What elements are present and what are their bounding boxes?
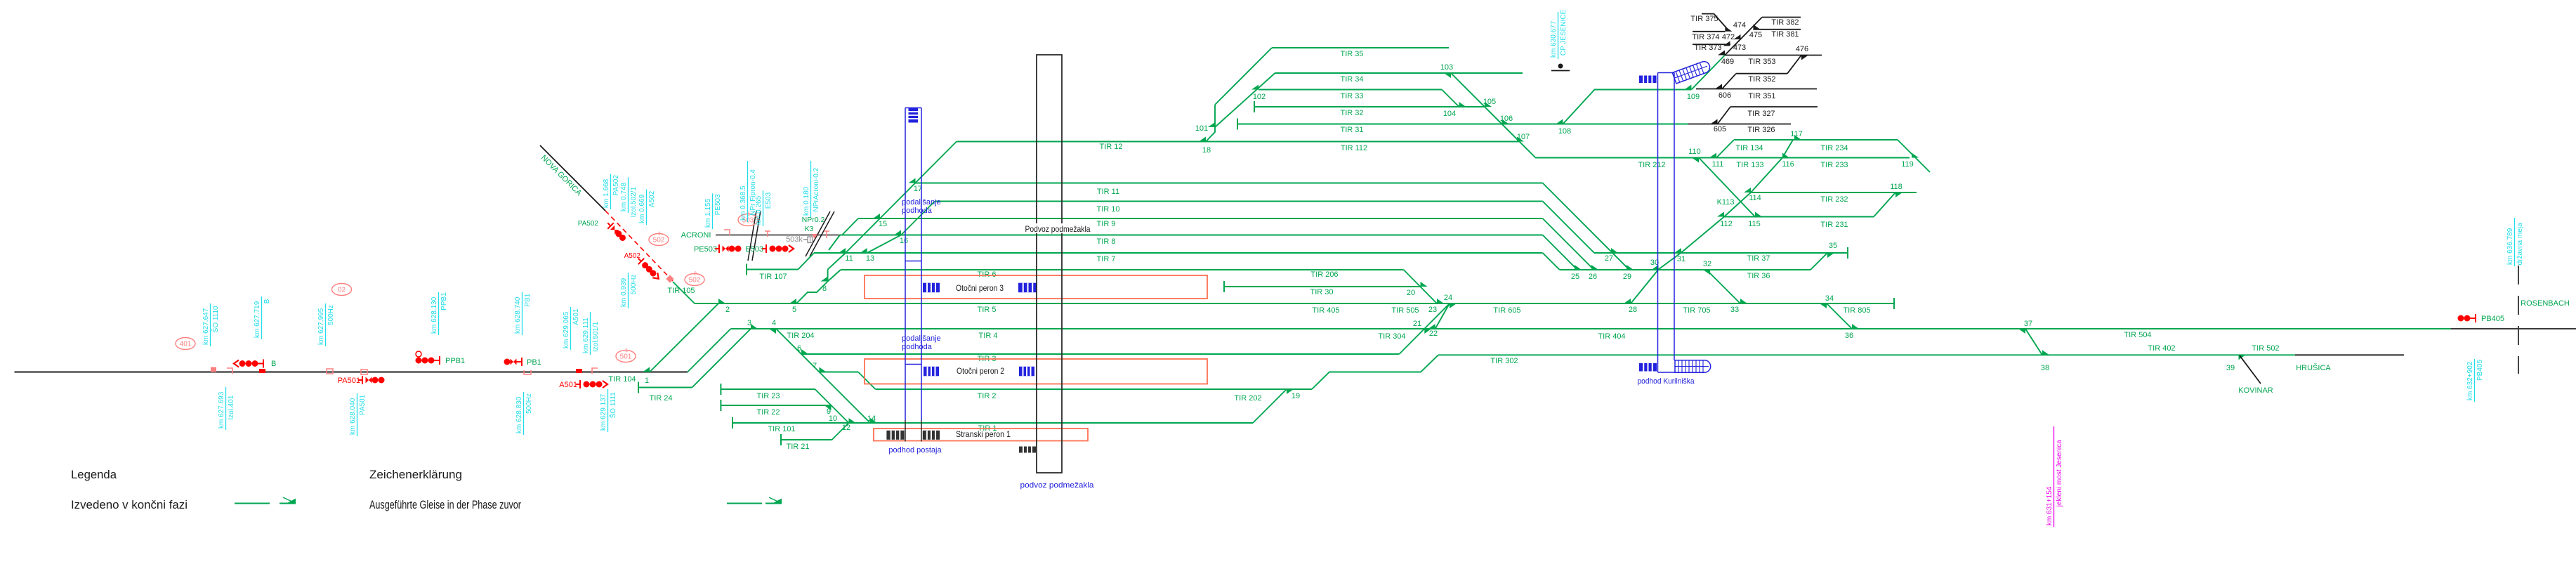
svg-text:474: 474 xyxy=(1733,21,1746,30)
state border vertical line xyxy=(2518,266,2519,374)
svg-text:A501: A501 xyxy=(559,381,577,389)
svg-text:km 630.677: km 630.677 xyxy=(1550,20,1558,58)
svg-text:podaljšanje: podaljšanje xyxy=(902,198,941,207)
svg-text:TIR 36: TIR 36 xyxy=(1747,272,1770,280)
platform box Stranski peron 1 xyxy=(874,429,1088,441)
wire diagonal node32 to node33 xyxy=(1707,270,1740,303)
svg-text:TIR 505: TIR 505 xyxy=(1391,306,1419,315)
svg-text:NPr0.2: NPr0.2 xyxy=(802,216,825,224)
wire TIR 8 row xyxy=(840,235,1543,236)
svg-text:TIR 206: TIR 206 xyxy=(1310,270,1338,279)
svg-text:502: 502 xyxy=(689,277,701,285)
svg-text:TIR 375: TIR 375 xyxy=(1690,15,1718,23)
switch node 14 xyxy=(870,418,877,423)
stairs icon blue peron2 right xyxy=(1019,367,1034,377)
svg-text:475: 475 xyxy=(1749,31,1762,39)
svg-text:km 628.740: km 628.740 xyxy=(514,296,522,334)
wire TIR107 diagonal to TIR7 row xyxy=(799,253,815,270)
signal PPB1 xyxy=(416,351,421,357)
signal PB1 xyxy=(504,359,511,365)
switch node 25 xyxy=(1575,265,1582,270)
svg-text:Stranski peron 1: Stranski peron 1 xyxy=(956,429,1011,439)
svg-text:km 629.065: km 629.065 xyxy=(563,311,570,348)
svg-text:PA501: PA501 xyxy=(359,394,367,415)
switch node 22 xyxy=(1428,324,1435,329)
svg-text:33: 33 xyxy=(1730,306,1739,314)
svg-text:TIR 502: TIR 502 xyxy=(2252,344,2279,353)
svg-text:1: 1 xyxy=(658,232,661,237)
wire TIR36 end diagonal to node35 xyxy=(1811,253,1827,270)
svg-text:29: 29 xyxy=(1623,273,1631,281)
svg-text:7: 7 xyxy=(813,362,817,370)
svg-text:PPB1: PPB1 xyxy=(440,292,448,311)
underpass station hatched stairs head xyxy=(909,108,919,123)
svg-text:34: 34 xyxy=(1825,294,1834,303)
svg-text:km 627.719: km 627.719 xyxy=(254,301,261,338)
switch node 110 xyxy=(1692,158,1699,163)
wire TIR 33 row xyxy=(1259,89,1442,91)
switch node 12 xyxy=(849,418,856,423)
switch node 474 xyxy=(1734,34,1741,39)
switch node 472 xyxy=(1725,27,1732,32)
svg-text:TIR 504: TIR 504 xyxy=(2124,331,2151,339)
svg-text:108: 108 xyxy=(1558,127,1571,136)
wire green diagonal 109 to 469 xyxy=(1691,55,1725,90)
wire feed to TIR8 start xyxy=(829,235,840,251)
svg-text:112: 112 xyxy=(1720,220,1733,228)
svg-text:Podvoz podmežakla: Podvoz podmežakla xyxy=(1025,224,1091,234)
svg-text:19: 19 xyxy=(1292,392,1300,400)
svg-text:ACRONI: ACRONI xyxy=(681,231,711,240)
svg-text:TIR 35: TIR 35 xyxy=(1340,50,1363,58)
svg-text:Izol.501/1: Izol.501/1 xyxy=(592,321,600,352)
svg-text:podhod postaja: podhod postaja xyxy=(888,446,942,455)
svg-text:15: 15 xyxy=(879,220,887,228)
svg-text:PPB1: PPB1 xyxy=(445,357,465,365)
switch node 3 xyxy=(751,324,758,329)
svg-text:26: 26 xyxy=(1589,273,1597,281)
underpass Kurilniska bottom connector xyxy=(1658,372,1676,373)
switch node 118 xyxy=(1895,192,1903,197)
svg-text:TIR 202: TIR 202 xyxy=(1234,394,1261,403)
overpass Podvoz podmezakla box xyxy=(1037,55,1062,473)
svg-text:PB405: PB405 xyxy=(2481,315,2504,323)
svg-text:km 628.830: km 628.830 xyxy=(515,396,523,433)
wire TIR 134/234 row xyxy=(1734,139,1898,140)
svg-text:TIR 5: TIR 5 xyxy=(978,306,997,314)
wire TIR 302/402 row xyxy=(1438,354,2295,355)
svg-text:km 627.693: km 627.693 xyxy=(218,391,225,429)
red circled number 02 xyxy=(332,284,352,296)
switch node 103 xyxy=(1444,73,1451,78)
svg-text:km 628.130: km 628.130 xyxy=(431,296,438,334)
wire TIR9 end diagonal to node26 xyxy=(1543,218,1594,270)
svg-text:119: 119 xyxy=(1901,160,1914,169)
switch node 116 xyxy=(1782,153,1789,158)
svg-text:km 0.748: km 0.748 xyxy=(620,182,628,211)
svg-text:24: 24 xyxy=(1444,294,1452,302)
svg-text:TIR 605: TIR 605 xyxy=(1493,306,1520,315)
switch node 4 xyxy=(769,329,776,334)
svg-text:21: 21 xyxy=(1413,320,1421,328)
svg-text:1: 1 xyxy=(625,348,628,353)
wire TIR 4 row (TIR204/304/404/504) xyxy=(731,328,2451,329)
platform box Otocni peron 2 xyxy=(865,359,1207,384)
wire TIR2 step up to TIR302 xyxy=(1312,355,1438,389)
svg-text:Legenda: Legenda xyxy=(71,468,117,481)
svg-text:TIR 107: TIR 107 xyxy=(759,273,787,281)
switch node 111 xyxy=(1709,153,1716,158)
svg-text:TIR 12: TIR 12 xyxy=(1099,143,1122,151)
svg-text:2: 2 xyxy=(694,272,697,277)
wire TIR11 end diagonal through 27 to node29 xyxy=(1543,183,1629,270)
wire long diagonal node11-15-17-TIR12 xyxy=(846,142,957,254)
switch node 105 xyxy=(1485,102,1492,107)
svg-text:B: B xyxy=(263,299,271,303)
switch node 23 xyxy=(1437,299,1444,303)
svg-text:115: 115 xyxy=(1748,220,1761,228)
wire red dashed diagonal continuation xyxy=(605,211,673,281)
wire TIR 32 row xyxy=(1254,101,1255,112)
svg-text:Otočni peron 3: Otočni peron 3 xyxy=(956,283,1004,293)
wire diagonal TIR24 to node3 xyxy=(692,329,751,388)
red circled number 401 xyxy=(176,338,195,350)
svg-text:38: 38 xyxy=(2041,364,2049,372)
svg-text:km 627.647: km 627.647 xyxy=(202,308,210,345)
wire TIR 374 row xyxy=(1693,31,1725,32)
stairs box bottom left xyxy=(1639,363,1657,372)
switch node 119 xyxy=(1912,153,1919,158)
svg-text:TIR 101: TIR 101 xyxy=(768,425,795,433)
svg-text:500Hz: 500Hz xyxy=(525,393,533,414)
red end square on diagonal xyxy=(666,275,673,282)
wire black diagonal 469 up xyxy=(1725,18,1762,55)
wire grand diagonal node28 to 117 xyxy=(1631,140,1793,303)
svg-text:6: 6 xyxy=(797,344,801,353)
wire TIR8 row to TIR9 start diagonal xyxy=(842,218,858,235)
svg-text:TIR 232: TIR 232 xyxy=(1820,195,1848,204)
svg-text:502: 502 xyxy=(653,237,665,244)
svg-text:TIR 204: TIR 204 xyxy=(787,332,814,340)
underpass station top connector xyxy=(905,107,921,109)
legend sample line 2 xyxy=(727,503,762,504)
wire diagonal node22 to node24 xyxy=(1435,303,1450,329)
wire KOVINAR diagonal (black) xyxy=(2240,355,2261,384)
wire TIR10 end diagonal to TIR37 row start xyxy=(1543,202,1594,254)
wire diagonal node108 up to 109 row xyxy=(1563,90,1691,124)
wire node8 top diagonal to node 11 xyxy=(828,253,846,270)
wire stub row at node7 xyxy=(820,372,859,373)
svg-text:116: 116 xyxy=(1782,160,1794,169)
switch node 117 xyxy=(1794,135,1801,140)
svg-text:km 0.265: km 0.265 xyxy=(755,195,763,225)
svg-text:TIR 2: TIR 2 xyxy=(978,392,997,400)
wire main line continuation to Rosenbach (dark) xyxy=(2451,328,2576,329)
svg-text:105: 105 xyxy=(1483,98,1496,106)
svg-text:TIR 373: TIR 373 xyxy=(1694,44,1721,52)
svg-text:km 627.995: km 627.995 xyxy=(317,308,325,345)
svg-text:PA502: PA502 xyxy=(578,220,599,228)
switch node 31 xyxy=(1674,248,1681,253)
wire TIR 30 track xyxy=(1223,281,1225,292)
wire TIR 373 row xyxy=(1693,44,1730,45)
svg-text:E503: E503 xyxy=(745,245,763,254)
svg-text:TIR 304: TIR 304 xyxy=(1378,332,1405,341)
boundary slash pair 1 xyxy=(748,211,756,261)
wire diagonal node111 to TIR134 row xyxy=(1716,140,1734,158)
wire NOVA GORICA line (black diagonal) xyxy=(540,145,605,211)
legend sample line 1 xyxy=(235,503,270,504)
svg-text:TIR 105: TIR 105 xyxy=(667,287,695,295)
svg-text:TIR 8: TIR 8 xyxy=(1097,237,1116,246)
svg-text:TIR 374: TIR 374 xyxy=(1692,33,1719,41)
svg-text:18: 18 xyxy=(1202,146,1211,155)
wire grand diagonal node103 to TIR212 xyxy=(1451,73,1536,158)
wire diagonal node101 to TIR 34 xyxy=(1215,73,1275,127)
svg-text:22: 22 xyxy=(1429,329,1438,338)
svg-text:km 631+154: km 631+154 xyxy=(2046,486,2053,525)
svg-text:TIR 353: TIR 353 xyxy=(1748,58,1775,66)
wire TIR 7 row xyxy=(814,252,1543,254)
wire TIR 21 track xyxy=(780,434,782,445)
svg-text:podhoda: podhoda xyxy=(902,343,933,351)
switch node 107 xyxy=(1517,137,1524,142)
switch node 39 xyxy=(2239,355,2246,360)
svg-text:2: 2 xyxy=(725,306,730,314)
stairs icon black stranski 1 xyxy=(886,431,904,440)
wire TIR 107 track xyxy=(746,264,747,275)
wire TIR33 end diagonal to node104 xyxy=(1442,90,1459,107)
svg-text:A502: A502 xyxy=(648,190,656,207)
svg-text:3: 3 xyxy=(747,319,751,327)
svg-text:podhoda: podhoda xyxy=(902,207,933,215)
svg-text:TIR 231: TIR 231 xyxy=(1820,221,1848,229)
svg-text:TIR 31: TIR 31 xyxy=(1340,126,1363,134)
switch node 115 xyxy=(1755,212,1762,217)
svg-text:5: 5 xyxy=(792,306,796,314)
svg-text:TIR 133: TIR 133 xyxy=(1736,161,1763,169)
svg-text:606: 606 xyxy=(1719,91,1731,100)
red bracket mark near A501 xyxy=(592,368,598,374)
svg-text:TIR 6: TIR 6 xyxy=(978,270,997,279)
svg-text:13: 13 xyxy=(866,254,874,263)
svg-text:PA501: PA501 xyxy=(338,377,360,385)
svg-text:ROSENBACH: ROSENBACH xyxy=(2521,299,2570,308)
underpass Kurilniska top connector xyxy=(1658,72,1675,74)
svg-text:ŠO 1110: ŠO 1110 xyxy=(211,306,220,332)
svg-text:TIR 7: TIR 7 xyxy=(1097,255,1116,263)
svg-text:podhod Kurilniška: podhod Kurilniška xyxy=(1638,377,1695,386)
switch node 15 xyxy=(873,214,880,218)
svg-text:TIR 21: TIR 21 xyxy=(786,443,809,451)
wire TIR 31 row xyxy=(1237,119,1238,130)
switch node 28 xyxy=(1624,299,1631,303)
svg-text:110: 110 xyxy=(1688,148,1701,156)
red circled number 503 xyxy=(738,214,758,226)
wire diagonal 605 to TIR327 xyxy=(1718,107,1731,124)
red marks on ACRONI line xyxy=(724,230,730,235)
svg-text:km 0.368.5: km 0.368.5 xyxy=(740,185,747,221)
red gap mark km628.830 xyxy=(524,370,531,374)
red circled number 501 xyxy=(616,351,636,362)
wire diagonal node16 to TIR10 xyxy=(901,202,935,235)
wire diagonal TIR1 to node19 xyxy=(1253,389,1287,423)
switch node 30 xyxy=(1652,265,1659,270)
wire TIR 351 row xyxy=(1696,89,1817,90)
switch node 37 xyxy=(2018,329,2025,334)
svg-text:KOVINAR: KOVINAR xyxy=(2238,386,2273,395)
wire diagonal node7 to TIR2 xyxy=(858,372,876,390)
wire TIR 105 lead-in diagonal xyxy=(673,282,695,303)
switch node 112 xyxy=(1717,212,1724,217)
wire TIR134 end diagonal through node119 xyxy=(1898,140,1930,172)
svg-text:državna meja: državna meja xyxy=(2516,223,2524,265)
survey dot symbol xyxy=(1558,64,1563,69)
wire diagonal node18 vertical link xyxy=(1206,105,1215,142)
switch node 1 xyxy=(643,367,650,372)
svg-text:4: 4 xyxy=(772,319,776,327)
svg-text:101: 101 xyxy=(1195,124,1208,133)
svg-text:TIR 22: TIR 22 xyxy=(756,408,780,417)
svg-text:TIR 11: TIR 11 xyxy=(1097,188,1119,196)
svg-text:TIR 104: TIR 104 xyxy=(608,375,636,384)
svg-text:TIR 351: TIR 351 xyxy=(1748,92,1775,100)
wire TIR 12 row xyxy=(957,141,1519,143)
wire diagonal TIR352 to node476 xyxy=(1787,55,1801,74)
stairs icon blue peron3 left xyxy=(923,283,940,293)
svg-text:E503: E503 xyxy=(765,192,773,209)
svg-text:podaljšanje: podaljšanje xyxy=(902,334,941,343)
underpass station connector xyxy=(905,261,921,262)
wire diagonal TIR21 to node12 xyxy=(832,423,849,440)
svg-text:ŠO 1111: ŠO 1111 xyxy=(608,392,617,419)
svg-text:PA502: PA502 xyxy=(612,175,620,196)
wire TIR 24 track xyxy=(638,382,639,393)
switch node 6 xyxy=(801,349,808,354)
switch node 9 xyxy=(824,405,832,410)
svg-text:TIR 33: TIR 33 xyxy=(1340,92,1363,100)
svg-text:39: 39 xyxy=(2226,364,2235,372)
switch node 32 xyxy=(1703,270,1710,275)
svg-text:km 632+902: km 632+902 xyxy=(2466,361,2474,400)
svg-text:TIR 234: TIR 234 xyxy=(1820,144,1848,152)
svg-text:TIR 24: TIR 24 xyxy=(649,394,672,403)
svg-text:TIR 9: TIR 9 xyxy=(1097,220,1116,228)
wire diagonal main to TIR4 row xyxy=(688,329,731,372)
svg-text:500Hz: 500Hz xyxy=(327,305,335,325)
wire diagonal node1 to node2 (to TIR5) xyxy=(650,303,718,372)
wire ACRONI industrial line xyxy=(716,235,842,236)
svg-text:473: 473 xyxy=(1733,44,1746,52)
wire diagonal node13 to node16 xyxy=(867,235,901,254)
svg-text:31: 31 xyxy=(1677,255,1685,263)
wire TIR 35 row xyxy=(1272,47,1449,48)
switch node 475 xyxy=(1753,25,1760,30)
svg-text:111: 111 xyxy=(1712,160,1724,169)
svg-text:11: 11 xyxy=(845,254,853,263)
svg-text:8: 8 xyxy=(822,285,827,293)
red open square mark xyxy=(327,369,333,374)
underpass station connector 2 xyxy=(905,364,921,365)
svg-text:km 0.180: km 0.180 xyxy=(803,186,810,216)
svg-text:PB405: PB405 xyxy=(2476,360,2484,381)
svg-text:K113: K113 xyxy=(1717,198,1735,207)
svg-text:Ausgeführte Gleise in der Phas: Ausgeführte Gleise in der Phase zuvor xyxy=(369,498,521,511)
svg-text:501: 501 xyxy=(620,353,632,361)
wire TIR 34 row xyxy=(1275,72,1523,74)
svg-text:102: 102 xyxy=(1253,93,1266,101)
wire TIR 382 row xyxy=(1762,17,1801,18)
red circled number 502-2 xyxy=(685,274,704,286)
svg-text:HRUŠICA: HRUŠICA xyxy=(2296,363,2331,372)
switch node 35 xyxy=(1827,253,1834,258)
legend sample switch symbol 2 xyxy=(765,503,782,504)
switch node 101 xyxy=(1208,122,1215,127)
switch node 114 xyxy=(1744,188,1751,192)
svg-text:36: 36 xyxy=(1845,332,1853,340)
svg-text:PE503: PE503 xyxy=(714,194,722,215)
wire HRUSICA line (black) xyxy=(2295,354,2404,355)
wire TIR 10 row xyxy=(935,201,1543,202)
switch node 24 xyxy=(1450,303,1457,308)
svg-text:TIR 134: TIR 134 xyxy=(1735,144,1763,152)
switch node 606 xyxy=(1715,84,1722,89)
wire TIR 353 row xyxy=(1725,55,1822,56)
svg-text:20: 20 xyxy=(1407,289,1415,297)
stairs icon blue peron2 left xyxy=(924,367,939,377)
wire TIR 9 row xyxy=(858,218,1543,219)
svg-text:K3: K3 xyxy=(805,225,814,233)
svg-text:27: 27 xyxy=(1605,254,1613,263)
wire TIR 381 row xyxy=(1753,29,1801,30)
svg-text:25: 25 xyxy=(1571,273,1579,281)
wire TIR 2 row xyxy=(876,388,1313,390)
svg-text:TIR 382: TIR 382 xyxy=(1771,18,1799,27)
svg-text:TIR 23: TIR 23 xyxy=(756,392,780,400)
wire TIR8 end diagonal to node25 xyxy=(1543,235,1577,270)
svg-text:TIR 37: TIR 37 xyxy=(1747,254,1770,263)
svg-text:23: 23 xyxy=(1428,306,1437,314)
svg-text:km 0.669: km 0.669 xyxy=(638,194,646,223)
svg-text:TIR 405: TIR 405 xyxy=(1312,306,1339,315)
boundary slash pair 2 xyxy=(806,211,830,256)
svg-text:Izvedeno v končni fazi: Izvedeno v končni fazi xyxy=(71,498,188,511)
svg-text:Otočni peron 2: Otočni peron 2 xyxy=(957,366,1004,376)
svg-text:TIR 34: TIR 34 xyxy=(1340,75,1363,84)
switch node 109 xyxy=(1684,85,1691,90)
wire TIR 101 track xyxy=(732,417,733,429)
wire TIR206 end long diagonal through 20 to 23 xyxy=(1404,270,1437,303)
svg-text:106: 106 xyxy=(1500,115,1513,123)
svg-text:PB1: PB1 xyxy=(524,293,532,306)
svg-text:109: 109 xyxy=(1687,93,1700,101)
svg-text:TIR 32: TIR 32 xyxy=(1340,109,1363,117)
svg-text:TIR 404: TIR 404 xyxy=(1598,332,1625,341)
wire TIR 11 row xyxy=(916,183,1543,184)
hatched cigar bottom xyxy=(1675,360,1711,372)
wire TIR 36 row right section xyxy=(1560,269,1811,270)
hatched cigar top rotated xyxy=(1672,60,1711,84)
svg-text:32: 32 xyxy=(1703,260,1711,268)
wire diagonal node5 to node8 xyxy=(796,282,828,304)
red open square mark 2 xyxy=(361,370,367,374)
svg-text:TIR 4: TIR 4 xyxy=(979,332,998,340)
svg-text:1: 1 xyxy=(645,377,649,385)
svg-text:10: 10 xyxy=(829,414,837,423)
wire TIR 231 row xyxy=(1724,216,1874,218)
svg-text:TIR 381: TIR 381 xyxy=(1771,30,1799,39)
svg-text:Izol.502/1: Izol.502/1 xyxy=(630,187,638,218)
